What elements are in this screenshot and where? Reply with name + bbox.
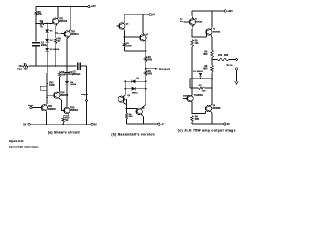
svg-text:Improved Q/C output stages.: Improved Q/C output stages. <box>9 145 39 148</box>
svg-text:D3 1N914: D3 1N914 <box>50 48 60 51</box>
svg-text:output: output <box>81 93 88 96</box>
svg-text:0R5: 0R5 <box>224 55 229 57</box>
svg-text:2N3054: 2N3054 <box>70 109 79 112</box>
svg-text:0.1µ: 0.1µ <box>69 74 74 76</box>
svg-text:(c) JLH 75W amp output stage: (c) JLH 75W amp output stage <box>178 129 236 133</box>
svg-text:D1 1N914: D1 1N914 <box>193 70 203 73</box>
svg-text:2N3054: 2N3054 <box>213 30 221 33</box>
svg-text:2N1613: 2N1613 <box>71 34 80 36</box>
svg-text:0V: 0V <box>94 124 97 126</box>
svg-text:0R3: 0R3 <box>203 69 208 71</box>
svg-text:Output: Output <box>159 67 171 71</box>
svg-text:+6V: +6V <box>91 4 96 8</box>
svg-text:R10: R10 <box>218 55 223 57</box>
svg-text:0R5: 0R5 <box>148 74 153 76</box>
svg-text:To l.s.: To l.s. <box>226 65 233 67</box>
svg-text:+28V: +28V <box>227 11 233 13</box>
svg-text:drv: drv <box>180 21 183 23</box>
svg-text:0R3: 0R3 <box>203 54 208 56</box>
svg-text:2000µF: 2000µF <box>73 74 81 76</box>
svg-text:0V: 0V <box>227 124 230 126</box>
svg-text:100R: 100R <box>126 46 132 48</box>
svg-text:2N3053: 2N3053 <box>60 95 69 97</box>
svg-text:0R5: 0R5 <box>195 119 200 121</box>
svg-text:1N914: 1N914 <box>132 91 139 94</box>
svg-text:40361: 40361 <box>197 94 204 97</box>
svg-text:1N914: 1N914 <box>70 83 77 86</box>
svg-text:100R: 100R <box>49 85 55 87</box>
svg-text:(b) Baxandall’s version: (b) Baxandall’s version <box>111 132 155 136</box>
svg-text:1Ω: 1Ω <box>65 120 68 122</box>
svg-text:2N3054: 2N3054 <box>195 20 203 23</box>
svg-text:(a) Shaw’s circuit: (a) Shaw’s circuit <box>48 131 81 135</box>
svg-text:2N3055: 2N3055 <box>212 108 221 110</box>
svg-text:0V: 0V <box>23 124 26 126</box>
svg-text:–V: –V <box>161 124 164 126</box>
svg-text:input: input <box>17 67 22 70</box>
svg-text:2N3053: 2N3053 <box>48 109 57 111</box>
svg-text:TR4: TR4 <box>60 91 65 94</box>
svg-text:Figure 9.11: Figure 9.11 <box>9 139 24 143</box>
svg-text:2N1613: 2N1613 <box>59 21 68 23</box>
svg-text:0R5: 0R5 <box>148 59 153 61</box>
svg-text:+V: +V <box>152 15 155 17</box>
